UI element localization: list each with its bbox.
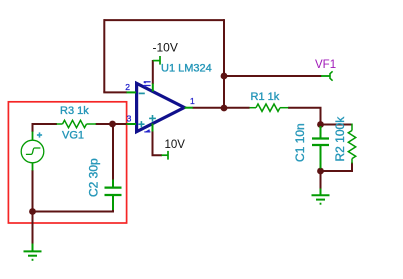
- plus mark non-inverting input: [138, 121, 144, 127]
- plus mark positive supply: [149, 115, 156, 122]
- svg-text:R2 100k: R2 100k: [333, 116, 347, 162]
- svg-text:VG1: VG1: [62, 129, 84, 141]
- pin 4: [144, 130, 150, 133]
- wire to inverting input pin2: [103, 91, 127, 93]
- wire positive supply stub: [153, 131, 163, 155]
- wire source bottom: [32, 170, 34, 213]
- wire feedback top: [104, 19, 224, 21]
- svg-text:C2 30p: C2 30p: [87, 158, 101, 197]
- negative supply jumper: [153, 56, 160, 65]
- junction node C1 / R2 bottom: [317, 168, 324, 175]
- junction node feedback / VF1: [221, 73, 228, 80]
- wire R1 to corner: [288, 108, 321, 125]
- svg-text:U1 LM324: U1 LM324: [161, 62, 212, 74]
- positive supply jumper: [162, 151, 169, 160]
- svg-text:R1 1k: R1 1k: [251, 91, 280, 103]
- polarity plus of VG1: [37, 132, 42, 137]
- minus mark inverting input: [139, 92, 145, 94]
- capacitor C2: [105, 180, 122, 211]
- ground left: [24, 244, 42, 260]
- wire R3 to non-inverting input pin3: [96, 123, 128, 125]
- resistor R2: [348, 124, 355, 164]
- capacitor C1: [312, 126, 329, 169]
- junction node at R3 / C2 / pin3: [109, 121, 116, 128]
- pin 11: [144, 82, 151, 87]
- output terminal VF1: [321, 71, 333, 80]
- wire bottom rail to C2: [32, 211, 114, 213]
- wire op-amp output to R1: [193, 107, 250, 109]
- op-amp U1 triangle: [137, 83, 185, 131]
- wire output to VF1: [224, 75, 322, 77]
- wire node to left ground: [32, 212, 34, 245]
- svg-text:10V: 10V: [165, 139, 186, 151]
- junction node at source bottom rail: [29, 208, 36, 215]
- wire feedback right vertical: [223, 19, 225, 108]
- svg-text:VF1: VF1: [315, 59, 336, 71]
- svg-text:1: 1: [190, 96, 195, 106]
- svg-text:R3 1k: R3 1k: [60, 105, 89, 117]
- selection box: [8, 102, 126, 223]
- wire node to right ground: [320, 171, 322, 189]
- wire negative supply stub: [152, 60, 154, 84]
- wire source top to R3: [33, 124, 58, 132]
- op-amp input leads: [127, 84, 193, 132]
- wire node down to C2: [112, 124, 114, 181]
- wire node to R2 top: [321, 124, 353, 126]
- resistor R3: [57, 120, 97, 127]
- svg-text:3: 3: [127, 113, 132, 123]
- ground right: [312, 189, 330, 204]
- junction node output / R1: [221, 105, 228, 112]
- wire R2 bottom: [320, 163, 353, 172]
- wire C2 bottom stub: [112, 207, 114, 213]
- junction node R1 / C1 / R2 top: [317, 121, 324, 128]
- svg-text:-10V: -10V: [153, 41, 178, 55]
- wire feedback left vertical: [103, 19, 105, 92]
- resistor R1: [250, 104, 289, 111]
- svg-text:2: 2: [125, 82, 130, 92]
- svg-text:C1 10n: C1 10n: [293, 123, 307, 162]
- voltage source VG1 symbol: [21, 132, 44, 171]
